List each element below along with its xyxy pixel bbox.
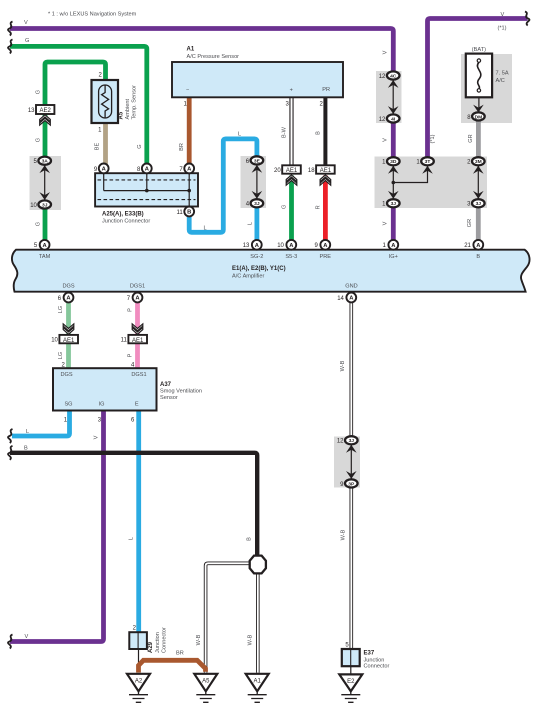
connector 6 3E	[251, 156, 264, 164]
svg-text:Sensor: Sensor	[160, 395, 178, 401]
svg-text:V: V	[94, 435, 100, 439]
pin circle 7 A DGS1	[133, 293, 143, 303]
break symbol V top-right	[525, 12, 529, 26]
A5 resistor zigzag	[102, 85, 109, 118]
svg-text:B: B	[187, 210, 191, 216]
svg-text:12: 12	[337, 439, 344, 445]
fuse 7.5A A/C box	[466, 54, 492, 98]
shield box for connectors 3E/3J mid	[241, 156, 267, 208]
pin circle 11 B junction	[184, 207, 194, 217]
arrow into 3P	[346, 471, 357, 479]
junction dot in shield box	[392, 181, 396, 185]
svg-text:L: L	[238, 132, 241, 138]
svg-text:V: V	[383, 50, 389, 54]
arrow into 3M	[473, 166, 484, 174]
wire L from A37 E down to A29	[136, 411, 141, 633]
double chevron below 20 AE1	[286, 175, 297, 182]
svg-text:GR: GR	[467, 219, 473, 227]
wire W-B from octagon left to ground A5	[206, 563, 251, 673]
svg-text:3J: 3J	[254, 201, 260, 207]
svg-text:(BAT): (BAT)	[472, 47, 486, 53]
connector 4 3J	[251, 199, 264, 207]
svg-text:AE1: AE1	[320, 168, 332, 174]
arrow into 4I	[388, 106, 399, 114]
arrow into 3J lower	[346, 445, 357, 453]
svg-text:E37: E37	[364, 651, 375, 657]
ground A5	[194, 674, 217, 703]
ground node octagon	[250, 556, 266, 574]
wire V top-right horizontal to 3T	[428, 19, 528, 158]
A/C pressure sensor A1 box	[172, 62, 343, 97]
svg-text:L: L	[204, 225, 207, 231]
junction connector A25(A),E33(B) box	[95, 173, 198, 206]
svg-text:12: 12	[379, 74, 386, 80]
svg-text:SG-2: SG-2	[250, 254, 263, 260]
wire P from DGS1 to 11 AE1	[135, 302, 140, 335]
svg-text:LG: LG	[58, 306, 64, 313]
A25 bus junction dot 7	[187, 189, 191, 193]
svg-text:Connector: Connector	[162, 627, 168, 653]
A5 thermistor capsule	[99, 85, 112, 118]
double chevron above 11 AE1	[132, 327, 143, 334]
svg-text:L: L	[247, 222, 253, 225]
svg-text:Ambient: Ambient	[125, 99, 131, 120]
thin link E37 to ground E2	[350, 666, 352, 674]
svg-text:BR: BR	[179, 143, 185, 151]
svg-text:V: V	[383, 221, 389, 225]
connector 9 3P	[345, 479, 358, 487]
svg-text:A37: A37	[160, 382, 172, 388]
svg-text:DM: DM	[475, 114, 483, 120]
arrow into 3J right-a	[388, 191, 399, 199]
break symbol V top-left	[8, 22, 12, 36]
arrow into 3J mid	[252, 191, 263, 199]
svg-text:P: P	[128, 308, 134, 312]
svg-text:A5: A5	[118, 111, 124, 119]
svg-text:13: 13	[243, 243, 250, 249]
double chevron above 10 AE1	[63, 327, 74, 334]
svg-text:+: +	[290, 87, 293, 93]
connector 12 4I	[387, 114, 400, 122]
svg-text:V: V	[501, 12, 505, 18]
wire W-B from GND 14A to 3J	[349, 302, 353, 436]
ground A2	[127, 674, 150, 703]
svg-text:DGS: DGS	[62, 284, 74, 290]
svg-text:AE1: AE1	[63, 338, 75, 344]
wire V from 3J to IG+	[391, 208, 396, 241]
shield box for fuse A/C	[461, 54, 512, 123]
svg-text:A1: A1	[254, 679, 262, 685]
wire W-B from octagon bottom to ground A1	[256, 572, 260, 673]
svg-text:E1(A), E2(B), Y1(C): E1(A), E2(B), Y1(C)	[232, 266, 286, 272]
svg-text:A2: A2	[135, 679, 143, 685]
connector 10 AE1 box	[59, 335, 78, 344]
thin link fuse to DM	[478, 97, 480, 112]
break symbol L left	[8, 429, 12, 443]
svg-text:3A: 3A	[42, 159, 49, 165]
svg-text:B: B	[24, 445, 28, 451]
svg-text:A/C Pressure Sensor: A/C Pressure Sensor	[187, 54, 240, 60]
svg-text:3J: 3J	[42, 202, 48, 208]
pin circle 8 A junction	[142, 164, 152, 174]
wire V top-left horizontal to 4C	[10, 29, 393, 72]
wire L from 3J to SG-2	[254, 208, 259, 241]
svg-text:IG+: IG+	[389, 254, 398, 260]
svg-text:S5-3: S5-3	[285, 254, 297, 260]
wire L loop from junction 11B to 3E	[189, 139, 257, 232]
svg-text:7. 5A: 7. 5A	[496, 71, 509, 77]
svg-text:14: 14	[337, 296, 344, 302]
pin circle 10 A S5-3	[286, 240, 296, 250]
wire V from A37 IG down to bottom-left break	[10, 411, 104, 642]
svg-text:TAM: TAM	[39, 254, 51, 260]
connector 10 3J	[38, 200, 51, 208]
pin circle 5 A TAM	[40, 240, 50, 250]
svg-text:L: L	[128, 537, 134, 540]
svg-text:A5: A5	[202, 679, 210, 685]
junction connector A29 box	[129, 632, 147, 649]
double chevron below AE2	[40, 115, 51, 122]
svg-text:W-B: W-B	[341, 529, 347, 540]
thin link 4C to 4I	[392, 80, 394, 114]
svg-text:A/C Amplifier: A/C Amplifier	[232, 273, 264, 279]
pin circle 14 A GND	[346, 293, 356, 303]
svg-text:11: 11	[121, 338, 128, 344]
svg-text:11: 11	[176, 210, 183, 216]
svg-text:P: P	[128, 353, 134, 357]
svg-text:10: 10	[51, 338, 58, 344]
svg-text:AE1: AE1	[286, 168, 298, 174]
wire LG from 10 AE1 to A37 pin 2	[66, 343, 71, 368]
svg-text:Junction: Junction	[155, 632, 161, 653]
svg-text:3J: 3J	[476, 201, 482, 207]
arrow into DM	[473, 105, 484, 113]
shield box for connectors 3A/3J left	[30, 156, 62, 210]
smog ventilation sensor A37 box	[53, 368, 157, 410]
thin link A29 to ground A2	[138, 649, 140, 672]
svg-text:21: 21	[464, 243, 471, 249]
connector 18 AE1 box	[316, 165, 335, 174]
wire G from AE2 down to 3A	[43, 114, 48, 157]
svg-text:DGS: DGS	[60, 372, 72, 378]
svg-text:B: B	[316, 131, 322, 135]
connector 11 AE1 box	[128, 335, 147, 344]
wire GR from 3J to B	[476, 208, 481, 241]
svg-text:Junction: Junction	[364, 657, 385, 663]
wire V from 4I to 3D	[391, 123, 396, 158]
shield box for connectors 3J/3P	[334, 437, 360, 488]
svg-text:13: 13	[28, 108, 35, 114]
svg-text:B: B	[247, 537, 253, 541]
wire BR from A1 pin 1 to junction 7A	[187, 97, 192, 164]
svg-text:10: 10	[30, 203, 37, 209]
svg-text:B-W: B-W	[282, 126, 288, 138]
svg-text:3T: 3T	[425, 159, 431, 165]
pin circle 9 A junction	[99, 164, 109, 174]
svg-text:E: E	[135, 402, 139, 408]
break symbol G top-left	[8, 39, 12, 53]
svg-text:AE2: AE2	[40, 108, 52, 114]
svg-text:12: 12	[379, 117, 386, 123]
svg-text:A1: A1	[187, 47, 195, 53]
wire LG from DGS to 10 AE1	[66, 302, 71, 335]
thin link 3E to 3J	[256, 165, 258, 199]
arrow into 4C	[388, 80, 399, 88]
connector 1 3D	[387, 157, 400, 165]
wire B-W from A1 pin 3 to 20 AE1	[289, 97, 293, 165]
wire G from 20 AE1 to S5-3	[289, 176, 294, 241]
svg-text:G: G	[25, 38, 29, 44]
double chevron below 18 AE1	[320, 175, 331, 182]
wire B from left break to ground node octagon	[10, 453, 257, 557]
svg-text:3J: 3J	[391, 201, 397, 207]
pin circle 21 A B	[473, 240, 483, 250]
svg-text:Connector: Connector	[364, 664, 390, 670]
svg-text:V: V	[24, 20, 28, 26]
connector 8 DM	[472, 112, 485, 120]
svg-text:DGS1: DGS1	[131, 372, 146, 378]
svg-text:3J: 3J	[349, 438, 355, 444]
svg-text:4C: 4C	[390, 73, 397, 79]
svg-text:A/C: A/C	[496, 78, 505, 84]
svg-text:3D: 3D	[390, 159, 397, 165]
svg-text:3M: 3M	[475, 159, 482, 165]
svg-text:20: 20	[274, 168, 281, 174]
svg-text:G: G	[137, 144, 143, 148]
wire G loop from AE2 up over to A5 pin 2	[45, 62, 106, 107]
thin link 3D to 3J with branch to 3T	[392, 166, 394, 199]
svg-text:G: G	[35, 138, 41, 142]
wire P from 11 AE1 to A37 pin 4	[135, 343, 140, 368]
svg-text:IG: IG	[99, 402, 105, 408]
svg-text:GND: GND	[345, 284, 357, 290]
shield box for connectors 3D/3T/3M/3J	[375, 157, 488, 209]
svg-text:GR: GR	[468, 134, 474, 142]
wire GR from DM to 3M	[476, 121, 481, 158]
connector 5 3A	[38, 157, 51, 165]
svg-text:PRE: PRE	[320, 254, 332, 260]
pin circle 6 A DGS	[64, 293, 74, 303]
ambient temp sensor A5 box	[92, 80, 119, 123]
svg-text:L: L	[26, 429, 29, 435]
A25 internal bus	[104, 173, 190, 206]
arrow into 3J right-b	[473, 191, 484, 199]
svg-text:G: G	[281, 205, 287, 209]
connector 20 AE1 box	[282, 165, 301, 174]
break symbol B left	[8, 446, 12, 460]
wire BR from ground A2 over to ground A5	[139, 660, 206, 672]
svg-text:Smog Ventilation: Smog Ventilation	[160, 389, 202, 395]
pin circle 9 A PRE	[320, 240, 330, 250]
A/C amplifier E1(A),E2(B),Y1(C) band	[12, 250, 530, 292]
svg-text:3P: 3P	[348, 481, 355, 487]
connector 1 3T	[421, 157, 434, 165]
svg-text:4I: 4I	[391, 116, 396, 122]
arrow into 3J left	[39, 192, 50, 200]
arrow into 3A	[39, 165, 50, 173]
svg-text:AE1: AE1	[132, 338, 144, 344]
connector 12 3J lower	[345, 436, 358, 444]
wire G from 3J to TAM	[43, 209, 48, 240]
svg-text:A25(A), E33(B): A25(A), E33(B)	[102, 212, 144, 218]
fuse element	[477, 62, 480, 88]
svg-text:Junction Connector: Junction Connector	[102, 219, 150, 225]
svg-text:E2: E2	[347, 679, 355, 685]
connector 13 AE2 box	[36, 105, 54, 114]
svg-text:−: −	[186, 87, 189, 93]
arrow into 3D	[388, 166, 399, 174]
svg-text:LG: LG	[58, 352, 64, 359]
svg-text:PR: PR	[322, 87, 330, 93]
svg-text:V: V	[383, 138, 389, 142]
wire R from 18 AE1 to PRE	[323, 176, 328, 241]
arrow into 3E	[252, 165, 263, 173]
connector 3 3J right	[472, 199, 485, 207]
A25 bus junction dot 8	[145, 189, 149, 193]
ground E2	[339, 674, 362, 702]
svg-text:W-B: W-B	[196, 634, 202, 645]
pin circle 7 A junction	[184, 164, 194, 174]
svg-text:B: B	[476, 254, 480, 260]
svg-text:18: 18	[308, 168, 315, 174]
ground A1	[246, 674, 269, 703]
connector 2 3M	[472, 157, 485, 165]
wire G top horizontal to junction 8A	[10, 46, 147, 164]
svg-text:W-B: W-B	[248, 634, 254, 645]
wire B from A1 pin 2 to 18 AE1	[323, 97, 327, 165]
svg-text:(*1): (*1)	[430, 134, 436, 143]
svg-text:V: V	[25, 634, 29, 640]
junction connector E37 box	[342, 649, 360, 666]
svg-text:SG: SG	[64, 402, 72, 408]
thin link 3M to 3J	[477, 166, 479, 199]
A25 dashed internal lines	[98, 180, 196, 200]
wire L from A37 SG to left break	[12, 411, 70, 437]
connector 1 3J right	[387, 199, 400, 207]
svg-text:* 1 : w/o LEXUS Navigation Sys: * 1 : w/o LEXUS Navigation System	[48, 12, 137, 18]
svg-text:(*1): (*1)	[498, 26, 507, 32]
svg-text:BR: BR	[176, 651, 184, 657]
thin link 3J to 3P	[350, 445, 352, 480]
svg-text:R: R	[316, 205, 322, 209]
break symbol V bottom-left	[8, 635, 12, 649]
svg-text:G: G	[35, 90, 41, 94]
thin link 3A to 3J	[44, 165, 46, 200]
svg-text:Temp. Sensor: Temp. Sensor	[132, 85, 138, 120]
wire W-B from 3P down to E37	[349, 488, 353, 650]
pin circle 1 A IG+	[388, 240, 398, 250]
svg-text:10: 10	[277, 243, 284, 249]
arrow into 3T	[422, 166, 433, 174]
wire BE from A5 pin 1 to junction 9A	[103, 123, 108, 164]
shield box for connectors 4C/4I	[376, 71, 402, 123]
svg-text:G: G	[35, 222, 41, 226]
svg-text:W-B: W-B	[340, 360, 346, 371]
connector 12 4C	[387, 71, 400, 79]
svg-text:DGS1: DGS1	[130, 284, 145, 290]
svg-text:3E: 3E	[254, 158, 261, 164]
svg-text:A29: A29	[148, 641, 154, 653]
pin circle 13 A SG-2	[252, 240, 262, 250]
svg-text:BE: BE	[95, 143, 101, 151]
